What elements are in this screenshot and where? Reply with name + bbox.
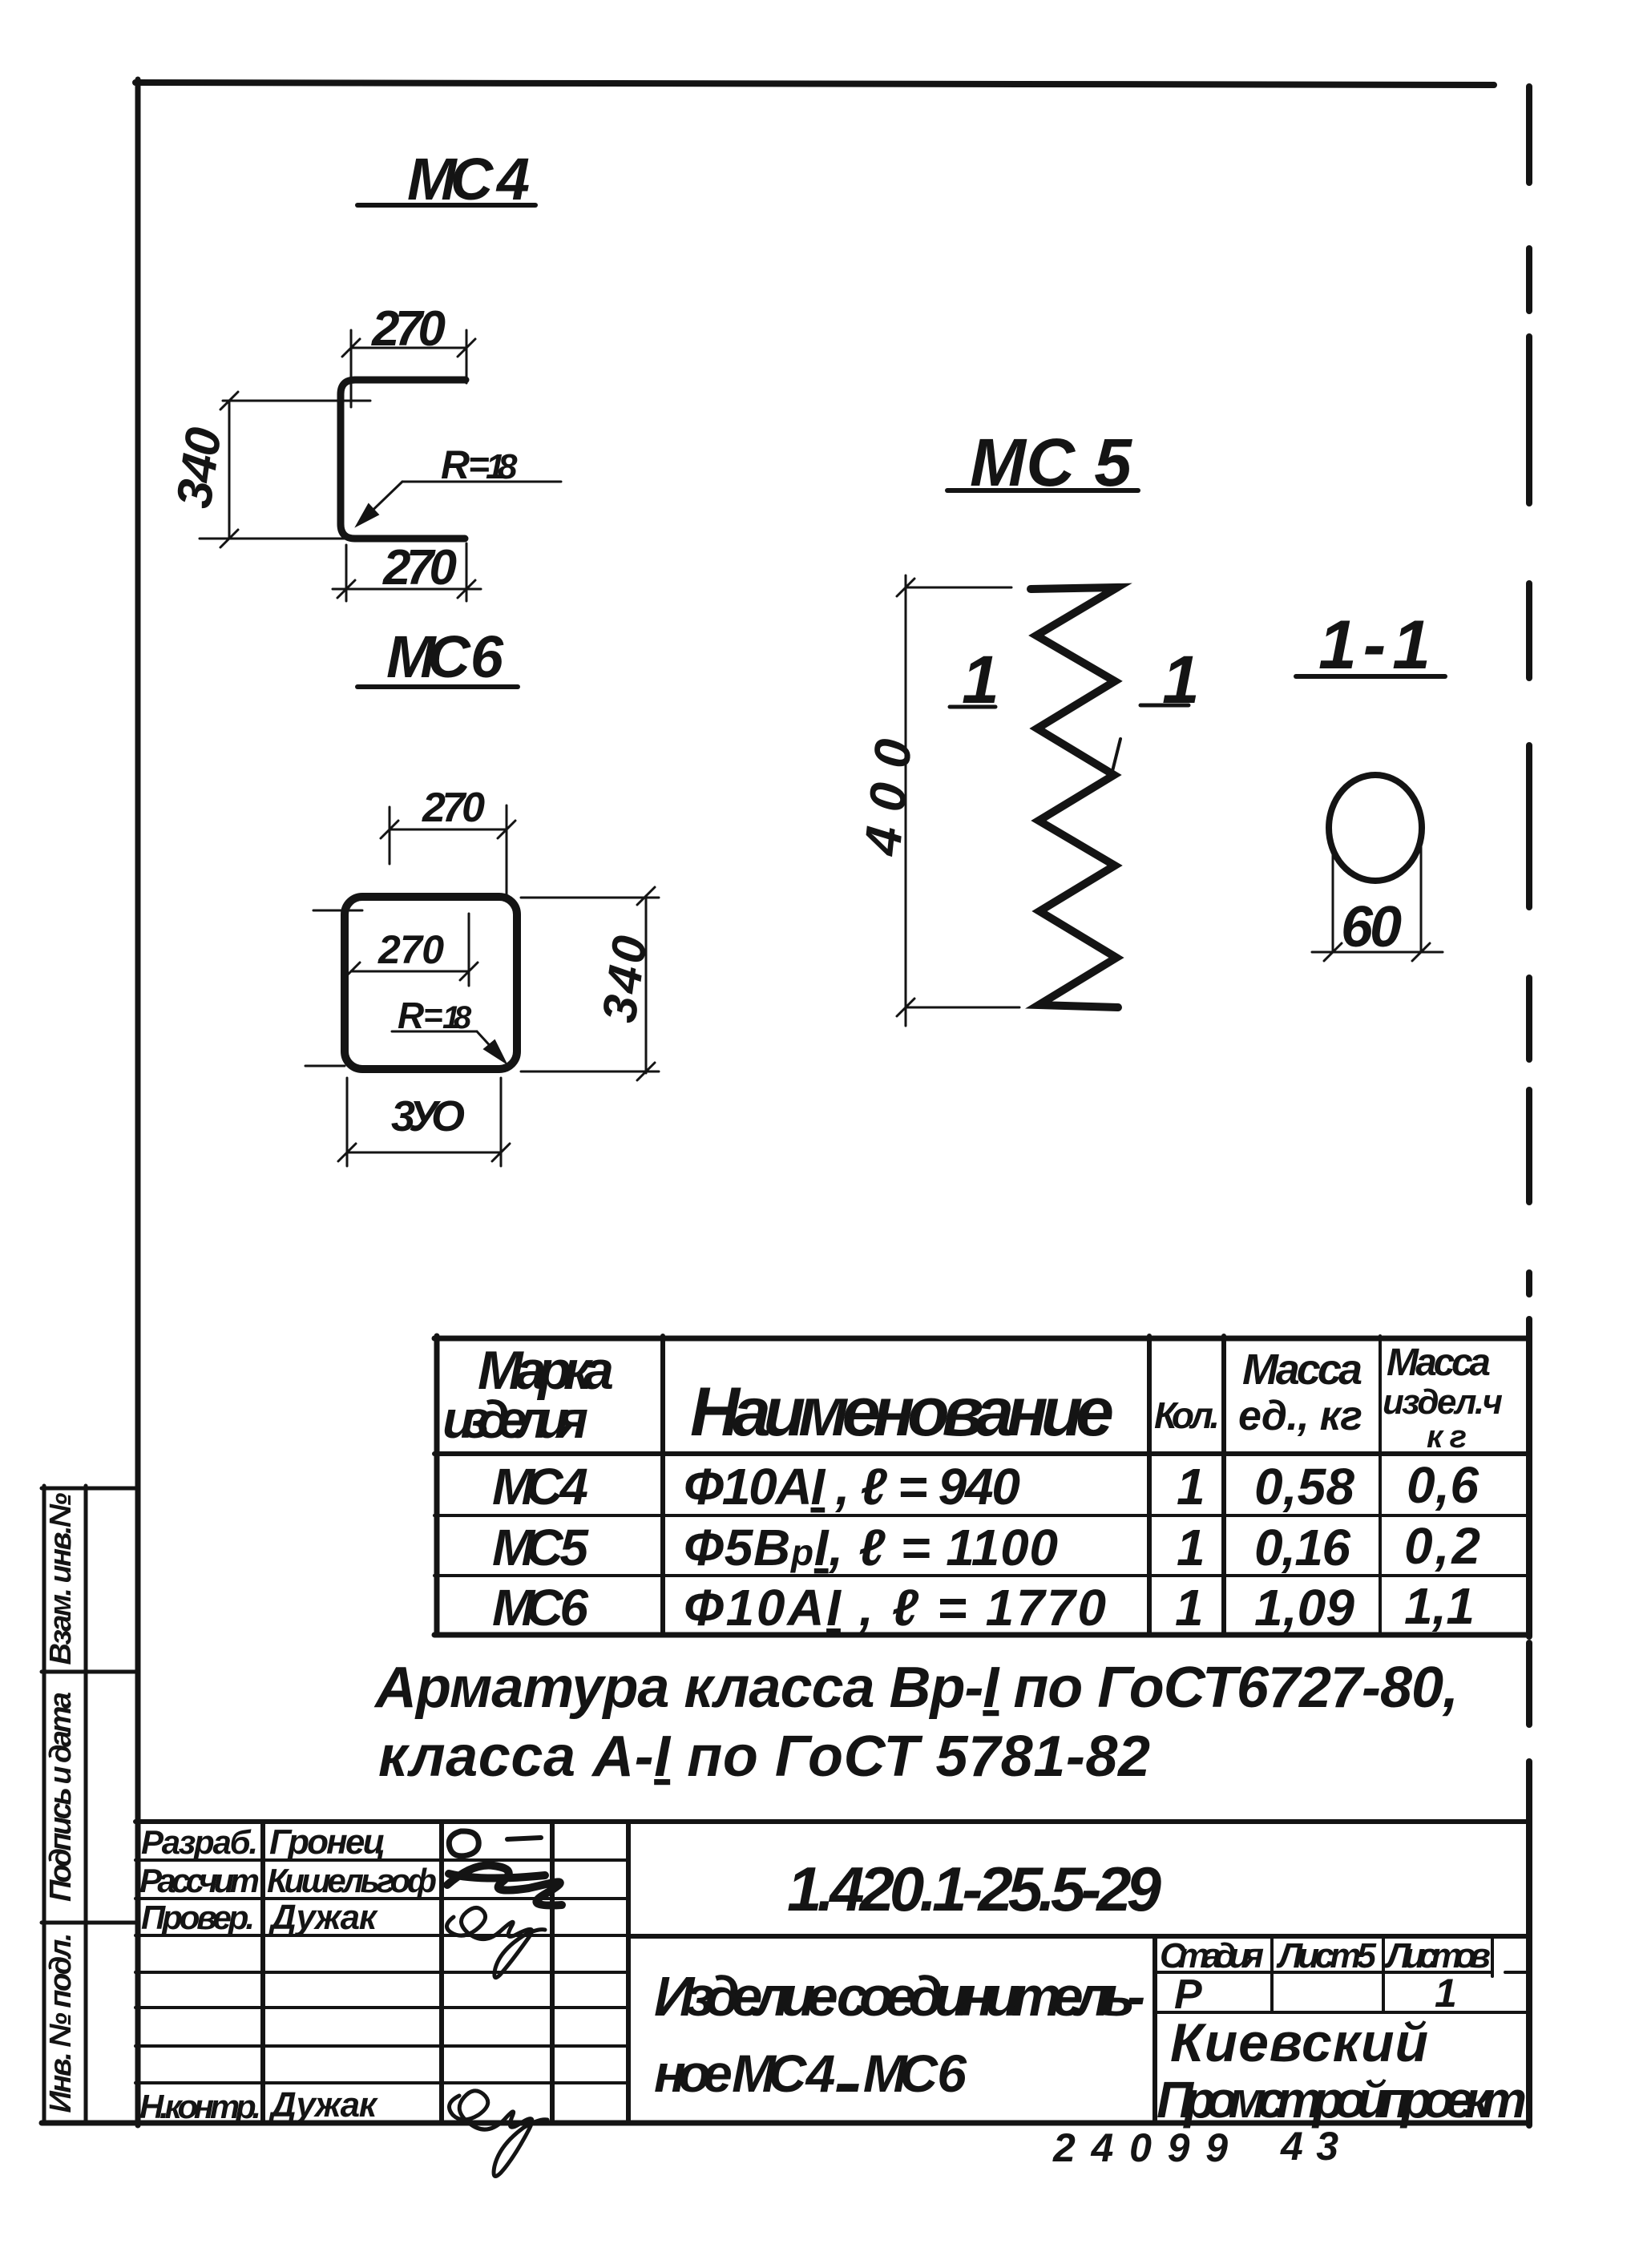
- svg-text:МС 5: МС 5: [970, 425, 1132, 500]
- svg-text:Масса: Масса: [1242, 1346, 1362, 1394]
- svg-text:0,2: 0,2: [1404, 1517, 1480, 1575]
- svg-text:1.420.1-25.5-29: 1.420.1-25.5-29: [787, 1854, 1162, 1924]
- svg-text:1: 1: [1435, 1971, 1457, 2016]
- svg-text:Подпись и дата: Подпись и дата: [44, 1692, 78, 1902]
- svg-text:8: 8: [498, 447, 518, 486]
- svg-text:0,16: 0,16: [1254, 1519, 1350, 1576]
- svg-text:класса А-I по ГоСТ 5781-82: класса А-I по ГоСТ 5781-82: [378, 1725, 1150, 1789]
- svg-text:3УО: 3УО: [391, 1092, 465, 1140]
- svg-text:Кол.: Кол.: [1154, 1394, 1220, 1436]
- svg-text:1: 1: [1177, 1458, 1205, 1515]
- svg-text:Ф10АI , ℓ = 1770: Ф10АI , ℓ = 1770: [684, 1579, 1106, 1636]
- svg-text:МС 6: МС 6: [492, 1579, 588, 1636]
- svg-text:8: 8: [454, 1000, 472, 1035]
- svg-text:1: 1: [1175, 1579, 1204, 1636]
- svg-text:270: 270: [371, 301, 446, 357]
- svg-text:Кишельгоф: Кишельгоф: [267, 1862, 437, 1899]
- svg-text:МС 5: МС 5: [492, 1519, 589, 1576]
- svg-text:1,09: 1,09: [1254, 1579, 1354, 1636]
- svg-text:Р: Р: [1174, 1971, 1202, 2018]
- svg-text:1: 1: [1177, 1519, 1205, 1576]
- svg-text:Киевский: Киевский: [1170, 2012, 1428, 2073]
- svg-text:340: 340: [167, 424, 232, 511]
- svg-text:Лист5: Лист5: [1276, 1936, 1377, 1975]
- svg-text:270: 270: [377, 927, 444, 972]
- svg-text:Стадия: Стадия: [1160, 1936, 1264, 1975]
- svg-text:ед., кг: ед., кг: [1238, 1393, 1362, 1439]
- svg-text:МС 6: МС 6: [386, 623, 504, 690]
- svg-text:270: 270: [382, 540, 457, 595]
- svg-text:Арматура класса Вр-I по ГоСТ67: Арматура класса Вр-I по ГоСТ6727-80,: [373, 1656, 1459, 1720]
- svg-text:60: 60: [1341, 895, 1402, 959]
- svg-text:400: 400: [853, 736, 922, 860]
- svg-text:Дужак: Дужак: [268, 2085, 379, 2125]
- svg-text:1-1: 1-1: [1318, 607, 1431, 684]
- svg-text:Ф10АI , ℓ = 940: Ф10АI , ℓ = 940: [684, 1458, 1020, 1515]
- svg-text:Рассчит: Рассчит: [139, 1862, 260, 1899]
- svg-text:Разраб.: Разраб.: [141, 1823, 258, 1861]
- svg-text:1: 1: [1162, 642, 1200, 717]
- svg-text:Взам. инв.№: Взам. инв.№: [44, 1493, 78, 1665]
- svg-text:МС 4: МС 4: [492, 1458, 588, 1515]
- svg-text:издел.ч: издел.ч: [1383, 1382, 1503, 1422]
- svg-text:кг: кг: [1427, 1419, 1467, 1455]
- svg-text:340: 340: [592, 933, 657, 1026]
- svg-text:Инв. № подл.: Инв. № подл.: [44, 1933, 78, 2113]
- svg-text:ное МС 4 ... МС 6: ное МС 4 ... МС 6: [654, 2044, 967, 2103]
- svg-text:1,1: 1,1: [1404, 1577, 1475, 1635]
- svg-text:24099: 24099: [1052, 2125, 1228, 2170]
- svg-text:1: 1: [962, 642, 999, 717]
- svg-text:0,6: 0,6: [1407, 1456, 1479, 1514]
- svg-text:Гронец: Гронец: [269, 1822, 386, 1862]
- svg-text:270: 270: [422, 785, 485, 831]
- svg-text:R: R: [398, 995, 424, 1036]
- svg-text:МС 4: МС 4: [407, 146, 530, 212]
- svg-text:Листов: Листов: [1384, 1936, 1491, 1975]
- svg-text:R: R: [441, 442, 470, 487]
- svg-text:Н.контр.: Н.контр.: [139, 2088, 261, 2125]
- svg-text:изделия: изделия: [442, 1390, 588, 1449]
- svg-text:Ф5ВрI, ℓ = 1100: Ф5ВрI, ℓ = 1100: [684, 1519, 1058, 1576]
- svg-text:43: 43: [1280, 2124, 1338, 2169]
- svg-text:=: =: [423, 996, 443, 1034]
- svg-text:Наименование: Наименование: [690, 1374, 1114, 1451]
- svg-text:Дужак: Дужак: [268, 1898, 379, 1937]
- svg-text:Масса: Масса: [1387, 1342, 1491, 1384]
- svg-text:0,58: 0,58: [1254, 1458, 1354, 1515]
- svg-text:Промстройпроект: Промстройпроект: [1157, 2071, 1527, 2129]
- svg-text:Провер.: Провер.: [141, 1899, 255, 1936]
- svg-text:Изделие соединитель-: Изделие соединитель-: [654, 1965, 1145, 2028]
